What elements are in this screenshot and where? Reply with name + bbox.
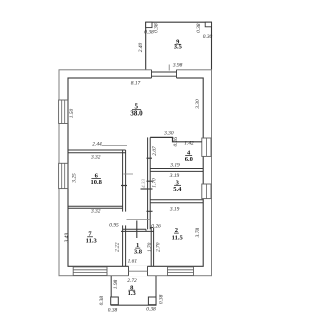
porch left wall (110, 276, 112, 305)
room 9 right wall (211, 22, 213, 70)
tick corridor left (124, 173, 134, 175)
svg-text:0.38: 0.38 (146, 307, 156, 313)
svg-text:3.78: 3.78 (195, 228, 201, 239)
porch right wall (155, 276, 157, 305)
svg-text:3.19: 3.19 (169, 207, 180, 213)
main house outer wall outline (59, 70, 212, 276)
svg-text:3.98: 3.98 (172, 63, 183, 69)
window W4 bottom wall room 2 (168, 267, 194, 276)
svg-text:3.19: 3.19 (169, 162, 180, 168)
svg-text:3.32: 3.32 (90, 154, 101, 160)
svg-text:0.38: 0.38 (99, 296, 105, 306)
window W1 left wall room 5 (59, 100, 68, 124)
label room 6 (91, 172, 103, 186)
svg-text:3.5: 3.5 (174, 43, 183, 50)
room 1 top wall (123, 228, 146, 230)
svg-text:1.50: 1.50 (69, 108, 75, 118)
label room 8 (128, 284, 137, 297)
svg-text:11.5: 11.5 (172, 234, 184, 241)
svg-text:1.70: 1.70 (147, 242, 153, 252)
svg-text:0.38: 0.38 (154, 23, 160, 33)
svg-text:0.26: 0.26 (151, 223, 161, 229)
room 9 top wall (145, 21, 212, 23)
label room 7 (86, 231, 98, 245)
wall between room 4 and room 3 (150, 168, 203, 170)
porch post bottom-right (148, 297, 156, 305)
svg-text:3.19: 3.19 (169, 173, 180, 179)
svg-text:11.3: 11.3 (86, 238, 98, 245)
svg-text:2.70: 2.70 (156, 242, 162, 252)
wall between room 3 and room 2 (150, 199, 203, 201)
svg-text:4.33: 4.33 (140, 179, 147, 188)
room 9 left wall (145, 22, 147, 70)
label room 5 (130, 103, 143, 118)
room 4 top wall with step (150, 137, 202, 141)
ticks on corridor right wall (147, 157, 153, 159)
label room 2 (172, 227, 184, 241)
svg-text:1.70: 1.70 (152, 178, 158, 188)
opening between room 5 and room 9 (152, 69, 177, 79)
svg-text:3.8: 3.8 (134, 249, 143, 256)
dim tick 3.98 (168, 65, 170, 71)
svg-text:0.95: 0.95 (109, 222, 119, 228)
svg-text:1.61: 1.61 (128, 259, 138, 265)
svg-text:3.25: 3.25 (72, 173, 78, 184)
svg-text:2.40: 2.40 (138, 42, 144, 52)
svg-text:0.38: 0.38 (196, 23, 202, 33)
wall between room 6 and room 7 (68, 205, 123, 207)
svg-text:3.30: 3.30 (195, 99, 201, 110)
svg-text:10.8: 10.8 (91, 179, 103, 186)
svg-text:6.0: 6.0 (185, 156, 193, 163)
door leaf room 1 (136, 221, 138, 239)
svg-text:1.42: 1.42 (184, 141, 194, 147)
svg-text:3.49: 3.49 (64, 233, 70, 244)
label room 9 (174, 38, 183, 50)
window W2 left wall room 6 (59, 163, 68, 188)
svg-text:2.44: 2.44 (92, 142, 102, 148)
window W5 right wall room 4 (202, 138, 211, 156)
label room 4 (185, 149, 193, 163)
hall dim line (127, 219, 151, 221)
svg-text:2.07: 2.07 (152, 146, 158, 156)
door opening to porch in bottom wall (129, 266, 148, 277)
svg-text:5.4: 5.4 (173, 186, 182, 193)
room 6 right wall / room 1 left wall (122, 150, 124, 212)
window W6 right wall room 3 (202, 184, 211, 199)
svg-text:2.22: 2.22 (114, 242, 120, 252)
porch post bottom-left (111, 297, 119, 305)
svg-text:38.0: 38.0 (130, 110, 143, 118)
svg-text:3.32: 3.32 (90, 209, 101, 215)
porch bottom wall (111, 304, 157, 306)
svg-text:3.30: 3.30 (163, 131, 174, 137)
wall between room 5 and room 6 (68, 149, 126, 151)
label room 3 (173, 179, 182, 193)
window W3 bottom wall room 7 (73, 267, 107, 276)
room 9 corner post top-right (205, 22, 211, 27)
svg-text:0.30: 0.30 (203, 34, 213, 40)
svg-text:1.3: 1.3 (128, 290, 137, 297)
tick on room 6 wall (121, 185, 127, 187)
svg-text:0.38: 0.38 (159, 294, 165, 304)
svg-text:1.98: 1.98 (113, 279, 119, 289)
corridor right wall (rooms 4,3 left wall) (147, 137, 149, 229)
svg-text:0.38: 0.38 (108, 307, 118, 313)
main house inner wall outline (68, 78, 203, 266)
svg-text:0.26: 0.26 (173, 137, 179, 147)
svg-text:8.17: 8.17 (131, 81, 141, 87)
svg-text:2.72: 2.72 (127, 278, 137, 284)
room 1 right wall (150, 228, 152, 266)
room 9 corner post top-left (146, 22, 152, 27)
dim line 2.44 (102, 145, 128, 147)
label room 1 (134, 242, 143, 255)
